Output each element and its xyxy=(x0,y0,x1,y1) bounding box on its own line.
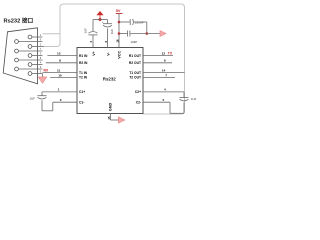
capacitor C6 104P xyxy=(128,31,130,37)
wire stubs DB9 pins xyxy=(18,37,44,74)
wire T2IN (10) xyxy=(50,76,77,78)
wire C2- (5) xyxy=(143,101,170,103)
junction dot VCC top xyxy=(118,21,121,24)
wire V- vertical xyxy=(107,20,109,24)
svg-text:C2-: C2- xyxy=(136,101,141,105)
chip right pin labels xyxy=(129,54,141,105)
wire V+/V- top rail xyxy=(93,19,108,21)
svg-text:TX: TX xyxy=(168,52,173,56)
svg-text:1UF: 1UF xyxy=(30,96,36,100)
wire R1OUT (12) + TX xyxy=(143,54,173,56)
svg-text:VCC: VCC xyxy=(118,51,122,59)
svg-text:T1 IN: T1 IN xyxy=(79,71,88,75)
junction dot xyxy=(99,18,102,21)
svg-text:13: 13 xyxy=(57,51,61,55)
svg-text:R1 OUT: R1 OUT xyxy=(129,54,141,58)
svg-text:C1-: C1- xyxy=(79,101,84,105)
wire DB9 pin5 to ground xyxy=(42,74,44,78)
capacitor C3 1UF on V+ xyxy=(89,32,98,35)
connector pin circles left column (pins 6-9) xyxy=(15,40,19,71)
DB9 pin number labels xyxy=(40,33,42,73)
svg-text:11: 11 xyxy=(57,68,61,72)
svg-text:15: 15 xyxy=(107,116,111,120)
svg-text:T2 IN: T2 IN xyxy=(79,76,88,80)
wire C1- (3) xyxy=(53,101,77,103)
power 5V arrow symbol (red) over V+ xyxy=(96,11,103,15)
svg-text:5: 5 xyxy=(163,98,165,102)
svg-text:4: 4 xyxy=(164,88,166,92)
wire GND (15) xyxy=(110,114,112,121)
chip left pin labels xyxy=(79,54,88,105)
svg-text:C1+: C1+ xyxy=(79,90,85,94)
wire 104P branch xyxy=(119,33,127,35)
svg-text:12: 12 xyxy=(162,51,166,55)
svg-text:3: 3 xyxy=(60,98,62,102)
wire R2IN (8) xyxy=(46,62,77,64)
ground (pink arrow right) xyxy=(118,117,125,123)
ground (pink power-gnd arrow down) xyxy=(38,77,46,83)
svg-text:R2 IN: R2 IN xyxy=(79,61,88,65)
connector J1 DB9 body xyxy=(3,28,37,84)
svg-text:104P: 104P xyxy=(131,40,138,44)
svg-text:T2 OUT: T2 OUT xyxy=(129,76,141,80)
wire 100UF branch xyxy=(119,21,130,23)
wire VCC vertical xyxy=(118,14,120,48)
svg-text:R1 IN: R1 IN xyxy=(79,54,88,58)
svg-text:7: 7 xyxy=(165,73,167,77)
svg-text:14: 14 xyxy=(162,68,166,72)
svg-text:1UF: 1UF xyxy=(110,29,114,35)
wire C1+ (1) xyxy=(42,91,77,93)
chip U1 MAX232 body xyxy=(77,48,143,114)
wire T1OUT (14) xyxy=(143,72,185,74)
svg-text:Rs232: Rs232 xyxy=(103,76,116,81)
wire R1IN (13) xyxy=(47,54,77,56)
capacitor C1 1UF xyxy=(38,92,53,111)
svg-text:16: 16 xyxy=(116,39,120,43)
wire T1IN (11) xyxy=(43,72,78,74)
frame (grey rounded border of sub-circuit) xyxy=(44,4,185,114)
wire R2OUT (9) xyxy=(143,62,172,64)
junction dot right xyxy=(146,32,149,35)
capacitor C4 1UF on V- xyxy=(103,24,112,27)
svg-text:1UF: 1UF xyxy=(191,97,197,101)
junction dot VCC lower xyxy=(118,32,121,35)
svg-text:10: 10 xyxy=(58,73,62,77)
svg-text:V+: V+ xyxy=(92,51,96,56)
svg-text:R2 OUT: R2 OUT xyxy=(129,61,141,65)
svg-text:1UF: 1UF xyxy=(83,28,87,34)
wire (grey stub joining frame left edge) xyxy=(43,33,61,35)
svg-text:RX: RX xyxy=(44,69,49,73)
svg-text:T1 OUT: T1 OUT xyxy=(129,71,141,75)
svg-text:8: 8 xyxy=(59,59,61,63)
svg-text:5V: 5V xyxy=(116,8,121,13)
svg-text:C2+: C2+ xyxy=(135,90,141,94)
wire T2OUT (7) xyxy=(143,76,175,78)
wire C2+ (4) xyxy=(143,91,184,93)
svg-text:GND: GND xyxy=(108,103,112,112)
svg-text:1: 1 xyxy=(58,88,60,92)
capacitor C2 1UF xyxy=(170,92,189,113)
chip top pin labels rotated V+ V- VCC xyxy=(92,51,121,59)
wire V+ vertical xyxy=(92,20,94,32)
svg-text:Rs232 接口: Rs232 接口 xyxy=(4,17,34,25)
svg-text:9: 9 xyxy=(164,59,166,63)
node VCC out (pink arrow right) xyxy=(160,31,166,37)
capacitor C5 100UF xyxy=(130,19,133,25)
connector pin circles right column (pins 1-5) xyxy=(28,35,32,75)
